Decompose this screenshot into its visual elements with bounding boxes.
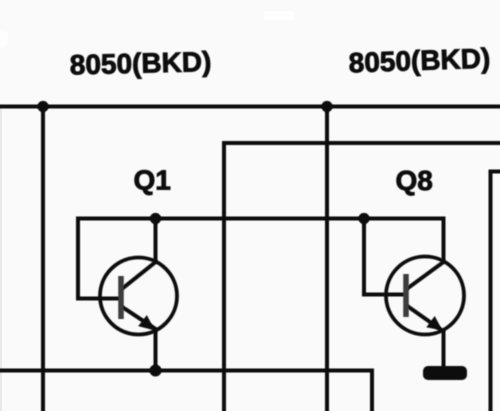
junction dot Q8 collector node <box>358 213 369 224</box>
wire Q1 collector <box>123 219 156 289</box>
wire Q1 emitter <box>123 308 156 371</box>
white-out patch left edge <box>0 30 8 47</box>
svg-text:8050(BKD): 8050(BKD) <box>348 43 491 79</box>
transistor Q8 emitter arrowhead <box>426 316 442 331</box>
transistor Q1 emitter arrowhead <box>138 315 155 330</box>
junction dot Q1 collector <box>150 213 161 224</box>
wire top supply rail <box>0 105 500 109</box>
wire left vertical from rail <box>41 107 45 411</box>
ground bar under Q8 <box>423 366 467 380</box>
transistor Q8 base bar <box>403 274 409 317</box>
junction dot center rail <box>321 101 332 112</box>
wire center vertical from rail <box>325 107 329 411</box>
wire collector rail Q1-Q8 <box>78 217 444 221</box>
transistor Q1 circle <box>100 258 177 335</box>
transistor Q1 base bar <box>118 276 124 319</box>
junction dot left rail <box>37 101 48 112</box>
transistor Q8 circle <box>386 257 464 335</box>
wire right edge with corner at x=490 <box>491 172 500 411</box>
svg-text:Q8: Q8 <box>396 165 433 196</box>
wire Q8 collector <box>408 219 444 289</box>
wire Q8 emitter <box>408 307 444 367</box>
wire upper-middle horizontal with drop at x=224 <box>224 143 500 411</box>
junction dot Q1 emitter on bottom rail <box>150 365 162 377</box>
wire Q8 base feedback loop <box>364 219 404 295</box>
scan edge shading left border <box>0 107 2 411</box>
wire bottom rail with drop at x=372 <box>0 371 372 411</box>
svg-text:8050(BKD): 8050(BKD) <box>69 46 211 80</box>
wire Q1 base feedback loop <box>78 219 119 299</box>
svg-text:Q1: Q1 <box>134 165 171 196</box>
white-out patch top center <box>264 11 295 20</box>
